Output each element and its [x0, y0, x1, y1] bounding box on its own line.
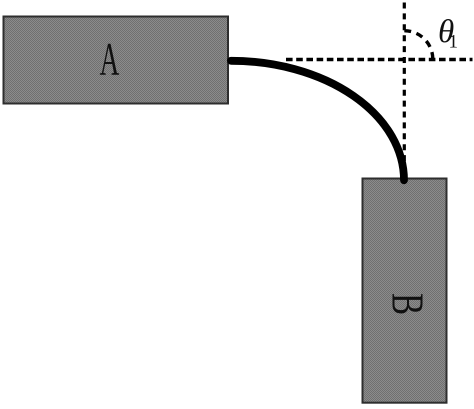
svg-text:1: 1	[449, 32, 459, 53]
svg-text:A: A	[100, 34, 120, 85]
vertical dashed line	[403, 3, 406, 167]
block B	[363, 179, 447, 403]
angle arc theta1	[404, 31, 433, 60]
svg-text:B: B	[382, 293, 434, 315]
horizontal dashed line	[286, 58, 473, 61]
block A	[4, 17, 229, 104]
curved rope	[231, 61, 404, 181]
